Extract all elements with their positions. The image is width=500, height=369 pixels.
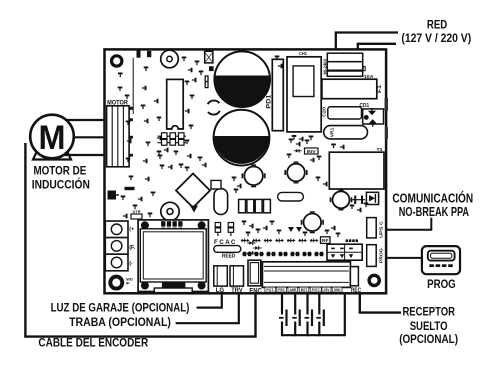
- arrow under diamond: [190, 206, 198, 213]
- black triangles pair: [288, 227, 294, 232]
- wire motor phase 3: [64, 154, 105, 156]
- svg-text:TRABA (OPCIONAL): TRABA (OPCIONAL): [69, 316, 171, 329]
- capacitor C2 electrolytic: [214, 110, 270, 166]
- svg-text:(-: (-: [129, 261, 133, 267]
- edge nub 2: [385, 127, 388, 139]
- svg-text:TRV: TRV: [231, 287, 243, 294]
- transistor mark below hole: [118, 73, 123, 78]
- svg-text:ENC: ENC: [249, 288, 261, 295]
- wire lock TRV: [176, 295, 239, 324]
- svg-text:RED: RED: [427, 17, 447, 31]
- connector UTR: [131, 214, 142, 219]
- connector ENC: [248, 260, 261, 286]
- trace bar left 2: [125, 187, 135, 190]
- programmer PROG device icon: [422, 246, 460, 274]
- svg-text:FEC: FEC: [278, 288, 285, 292]
- pin marks above T1: [331, 144, 336, 149]
- ground hole GND: [110, 277, 122, 289]
- capacitor C20: [328, 107, 362, 119]
- svg-text:REC: REC: [351, 287, 361, 294]
- component small k: [363, 67, 365, 71]
- display module OLED: [138, 220, 208, 292]
- svg-text:COMUNICACIÓN: COMUNICACIÓN: [392, 191, 473, 206]
- push-button contact ABR: [294, 295, 296, 315]
- push-button contact FOTC: [318, 295, 320, 315]
- component black square top edge: [137, 50, 141, 58]
- svg-text:INV: INV: [307, 149, 316, 154]
- push-button contact BOT: [306, 295, 308, 315]
- component black square 2: [147, 51, 151, 57]
- svg-text:(F.: (F.: [129, 245, 136, 251]
- push-button contact FEC: [281, 295, 283, 315]
- svg-text:REED: REED: [222, 254, 236, 260]
- display bottom tab: [154, 288, 192, 293]
- terminals garage light: [105, 221, 128, 238]
- svg-text:F1: F1: [377, 85, 383, 93]
- label INV box: [305, 148, 319, 154]
- diode row A: [241, 239, 249, 243]
- pin dots row: [346, 239, 349, 242]
- component cluster near RF: [303, 232, 308, 237]
- component cluster center: [232, 177, 237, 182]
- wire GND return: [344, 295, 346, 337]
- connector UPS: [367, 218, 377, 238]
- component black square with tab: [108, 191, 117, 200]
- capacitor CX H-shape: [354, 196, 356, 205]
- svg-text:PROG: PROG: [379, 247, 384, 263]
- diode marks near INV: [294, 149, 302, 153]
- transistor cluster below IC: [157, 151, 162, 156]
- wire push-button bus: [282, 334, 345, 336]
- component cluster right middle: [289, 139, 294, 144]
- wire motor phase 2: [74, 136, 105, 138]
- film capacitors row: [239, 199, 246, 212]
- svg-text:ABR: ABR: [290, 288, 297, 292]
- svg-text:15V: 15V: [324, 288, 331, 292]
- heat sink PD1: [272, 59, 283, 130]
- diode marks right of REED: [247, 241, 256, 245]
- connector TRV: [230, 266, 244, 286]
- toroid L4: [304, 214, 322, 232]
- crystal X1: [205, 51, 213, 63]
- svg-text:VR1: VR1: [330, 127, 335, 137]
- connector MOTOR terminal block: [107, 106, 130, 167]
- IC U1 DIP package: [167, 79, 184, 128]
- small rect component: [211, 180, 221, 189]
- resistor R vertical: [205, 76, 208, 88]
- svg-text:(OPCIONAL): (OPCIONAL): [399, 332, 458, 346]
- relay CH1: [287, 57, 321, 132]
- terminal labels row: [265, 287, 276, 292]
- wire PROG programmer: [387, 257, 422, 259]
- relay block K1: [327, 244, 362, 260]
- diode D in square: [366, 192, 378, 204]
- mounting hole top-left: [112, 56, 122, 66]
- svg-text:UPS C: UPS C: [379, 221, 384, 238]
- svg-text:NO-BREAK PPA: NO-BREAK PPA: [399, 205, 469, 219]
- svg-text:C20: C20: [321, 106, 326, 117]
- terminal strip main: [262, 262, 350, 288]
- wire UPS communication: [387, 218, 431, 230]
- buzzer BZ1 top: [161, 50, 179, 68]
- svg-text:(127 V / 220 V): (127 V / 220 V): [401, 31, 471, 45]
- connector LG: [214, 266, 228, 286]
- motor connector pins: [130, 118, 133, 121]
- wire mains line 2: [358, 44, 396, 54]
- diamond component Q10: [176, 174, 210, 208]
- wire motor phase 1: [67, 119, 105, 121]
- reed switch REED: [214, 246, 241, 253]
- trace bar left 1: [125, 107, 134, 110]
- svg-text:FOTC: FOTC: [312, 288, 320, 292]
- RF module: [321, 237, 331, 244]
- component black square near crystal: [209, 66, 214, 71]
- capacitor vertical stadium: [214, 189, 228, 215]
- connector PROG: [367, 245, 377, 267]
- jumper grid JP1: [158, 135, 187, 137]
- svg-text:UTR: UTR: [133, 210, 142, 214]
- transistor cluster left column: [144, 67, 149, 72]
- trace line vertical: [132, 58, 134, 114]
- svg-text:(+: (+: [129, 227, 134, 233]
- wire receiver REC: [360, 295, 401, 313]
- stadium NJL component: [278, 192, 304, 201]
- svg-text:LG: LG: [216, 287, 225, 294]
- capacitor C1 electrolytic: [214, 51, 270, 107]
- inductor circular arrows: [208, 101, 220, 105]
- svg-text:LUZ DE GARAJE (OPCIONAL): LUZ DE GARAJE (OPCIONAL): [51, 300, 190, 314]
- pin marks below CH1: [292, 135, 297, 140]
- display screen: [140, 229, 206, 282]
- wire garage light: [197, 295, 222, 308]
- toroid L1: [244, 167, 263, 186]
- display bottom connector: [162, 282, 186, 289]
- svg-text:RECEPTOR: RECEPTOR: [402, 305, 455, 319]
- svg-text:CH1: CH1: [299, 51, 308, 56]
- svg-text:/F: /F: [126, 282, 130, 286]
- diode row B: [242, 252, 252, 256]
- transformer T1: [329, 152, 384, 189]
- svg-text:CABLE DEL ENCODER: CABLE DEL ENCODER: [38, 335, 148, 349]
- component cluster above UPS connector: [350, 205, 355, 210]
- PCB board outline: [105, 49, 387, 293]
- toroid L2: [287, 164, 305, 182]
- jumper caps above FCAC: [215, 223, 220, 227]
- connector mains terminal block: [327, 53, 362, 62]
- buzzer BZ2 bottom: [161, 202, 179, 220]
- svg-text:M: M: [39, 119, 66, 157]
- svg-text:MOTOR DE: MOTOR DE: [33, 164, 86, 178]
- bridge rectifier CD1: [363, 109, 384, 124]
- toroid L3: [333, 191, 350, 208]
- edge nub 1: [385, 98, 389, 111]
- transistor cluster middle column: [182, 57, 187, 62]
- fuse F1: [322, 79, 377, 99]
- mounting hole bottom-right: [369, 275, 379, 285]
- svg-text:PROG: PROG: [427, 277, 456, 291]
- svg-text:BOT: BOT: [301, 288, 308, 292]
- wire mains line 1: [336, 33, 398, 55]
- svg-text:T1: T1: [377, 147, 384, 152]
- svg-text:GND: GND: [334, 288, 341, 292]
- varistor VR1: [324, 126, 368, 139]
- motor M1 induction motor symbol: [33, 149, 71, 160]
- svg-text:INDUCCIÓN: INDUCCIÓN: [32, 176, 90, 191]
- svg-text:PD1: PD1: [267, 94, 273, 109]
- component cluster bottom left of strip: [242, 221, 247, 226]
- wire encoder cable run: [25, 143, 255, 337]
- svg-text:POT.: POT.: [266, 288, 274, 292]
- svg-text:RF: RF: [322, 238, 329, 243]
